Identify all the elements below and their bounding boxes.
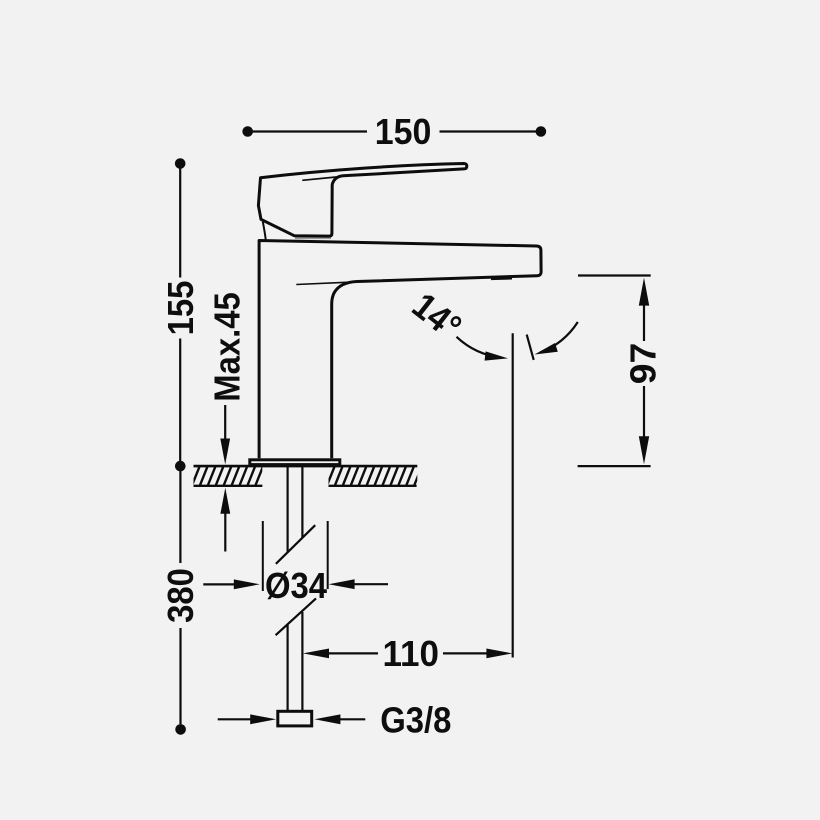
svg-text:Max.45: Max.45 [208, 292, 248, 402]
svg-text:110: 110 [382, 633, 439, 674]
svg-text:380: 380 [162, 568, 202, 623]
svg-text:150: 150 [375, 112, 432, 152]
svg-text:97: 97 [623, 343, 664, 384]
svg-text:G3/8: G3/8 [380, 701, 451, 741]
svg-text:155: 155 [161, 281, 201, 336]
svg-text:Ø34: Ø34 [265, 566, 328, 606]
